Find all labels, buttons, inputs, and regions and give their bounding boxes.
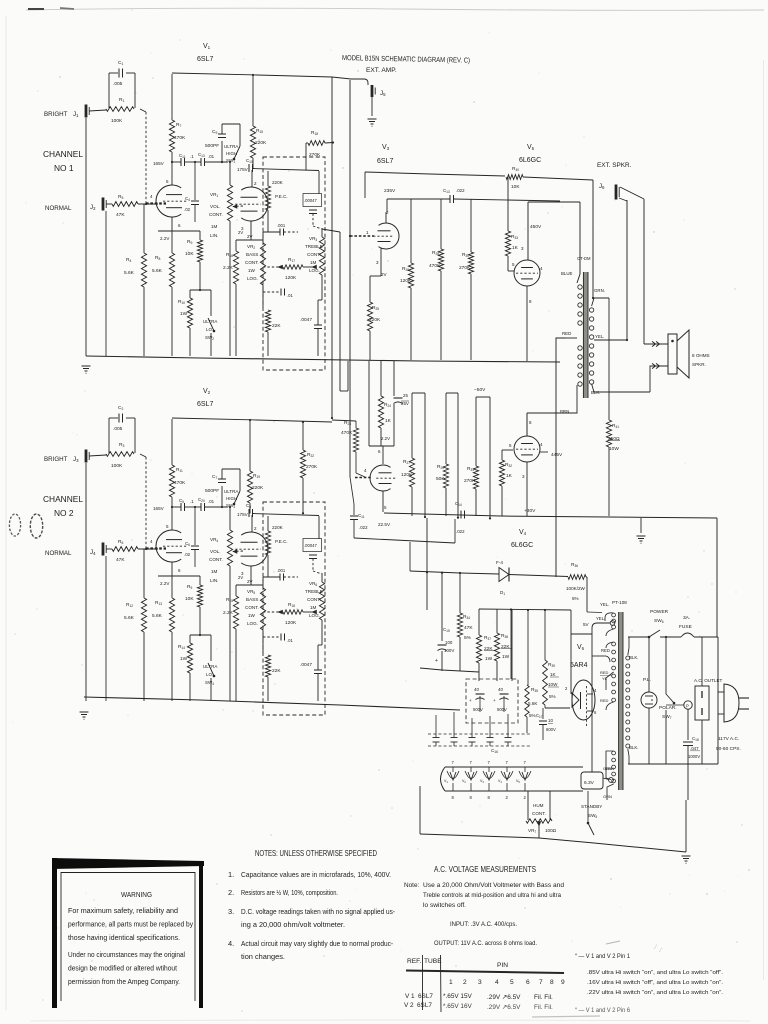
svg-text:POWER: POWER (650, 609, 669, 615)
svg-text:2V: 2V (247, 234, 253, 239)
svg-text:design be modified or altered: design be modified or altered wtihout (68, 966, 177, 973)
svg-text:40: 40 (474, 687, 479, 692)
svg-text:2V: 2V (238, 230, 243, 235)
svg-text:470K: 470K (429, 263, 441, 269)
svg-text:5: 5 (510, 979, 514, 986)
svg-text:270K: 270K (306, 464, 318, 470)
svg-text:220K: 220K (252, 485, 264, 491)
svg-text:ing a 20,000 ohm/volt voltmete: ing a 20,000 ohm/volt voltmeter. (241, 920, 345, 929)
svg-text:2: 2 (463, 979, 467, 986)
svg-text:NO 1: NO 1 (54, 163, 74, 173)
svg-text:5.6K: 5.6K (152, 613, 163, 619)
svg-text:120K: 120K (285, 275, 297, 281)
svg-text:CONT.: CONT. (209, 557, 223, 562)
svg-text:1W: 1W (248, 613, 256, 618)
svg-text:1K: 1K (550, 672, 557, 677)
svg-text:NOTES: UNLESS OTHERWISE SPECIF: NOTES: UNLESS OTHERWISE SPECIFIED (255, 849, 377, 858)
svg-text:CONT.: CONT. (245, 605, 259, 610)
svg-text:2.: 2. (228, 888, 234, 897)
svg-text:TREBLE: TREBLE (305, 244, 323, 249)
svg-text:1M: 1M (310, 260, 317, 265)
svg-text:ULTRA: ULTRA (224, 144, 238, 149)
svg-text:GRN.: GRN. (594, 288, 605, 293)
svg-text:.0047: .0047 (300, 317, 312, 323)
svg-text:1W: 1W (180, 656, 188, 662)
svg-text:LOG.: LOG. (247, 276, 258, 281)
svg-text:22.5V: 22.5V (378, 522, 391, 527)
svg-text:4: 4 (495, 979, 499, 986)
svg-text:6SL7: 6SL7 (417, 1002, 432, 1009)
svg-text:50-60 CPS.: 50-60 CPS. (716, 746, 741, 752)
svg-text:.16V ultra Hi switch “off”, an: .16V ultra Hi switch “off”, and ultra Lo… (587, 980, 723, 986)
svg-text:BASS: BASS (246, 597, 258, 602)
svg-text:22K: 22K (484, 646, 493, 652)
svg-text:1W: 1W (485, 656, 493, 662)
svg-text:ULTRA: ULTRA (203, 664, 217, 669)
svg-text:175V: 175V (237, 167, 249, 172)
svg-text:LIN.: LIN. (210, 578, 218, 583)
svg-text:500PF: 500PF (205, 143, 219, 149)
svg-text:.01: .01 (208, 154, 215, 159)
svg-text:CONT.: CONT. (307, 597, 321, 602)
svg-text:.22V ultra Hi switch “on”, and: .22V ultra Hi switch “on”, and ultra Lo … (587, 990, 723, 996)
svg-text:P.E.C.: P.E.C. (275, 539, 288, 544)
svg-text:V5: V5 (527, 144, 535, 151)
svg-text:10K: 10K (511, 184, 520, 190)
svg-text:.0047: .0047 (300, 662, 312, 668)
svg-text:VOL.: VOL. (210, 204, 220, 209)
svg-text:EXT. SPKR.: EXT. SPKR. (597, 162, 632, 169)
svg-text:F-4: F-4 (496, 560, 503, 565)
svg-text:CONT.: CONT. (307, 252, 321, 257)
svg-text:Resistors are ½ W, 10%, compos: Resistors are ½ W, 10%, composition. (241, 888, 338, 897)
svg-text:J4: J4 (90, 549, 96, 556)
svg-text:.85V ultra Hi switch “on”, and: .85V ultra Hi switch “on”, and ultra Lo … (587, 970, 723, 976)
svg-text:BRIGHT: BRIGHT (44, 111, 68, 118)
svg-text:.01: .01 (208, 499, 215, 504)
svg-text:WARNING: WARNING (121, 890, 152, 899)
svg-text:.022: .022 (456, 188, 465, 193)
svg-text:270K: 270K (464, 478, 476, 484)
svg-text:YEL.: YEL. (600, 602, 610, 607)
svg-text:V6: V6 (577, 644, 585, 651)
svg-text:GRN: GRN (605, 766, 614, 771)
svg-text:V3: V3 (382, 144, 390, 151)
svg-text:Treble controls at mid-positio: Treble controls at mid-position and ultr… (423, 892, 561, 899)
svg-text:40: 40 (498, 687, 503, 692)
svg-text:D.C. voltage readings taken wi: D.C. voltage readings taken with no sign… (241, 907, 396, 916)
svg-text:J3: J3 (73, 456, 79, 463)
svg-text:EXT. AMP.: EXT. AMP. (366, 67, 397, 74)
svg-text:NORMAL: NORMAL (45, 205, 72, 212)
svg-text:100K: 100K (111, 118, 123, 124)
svg-text:1M: 1M (310, 605, 317, 610)
svg-text:3.: 3. (228, 907, 234, 916)
svg-text:1K: 1K (385, 418, 392, 424)
svg-text:J6: J6 (599, 184, 605, 190)
svg-text:10W: 10W (548, 682, 558, 687)
svg-text:450V: 450V (530, 224, 542, 230)
svg-text:.29V ↗6.5V: .29V ↗6.5V (487, 994, 521, 1001)
svg-text:J2: J2 (90, 204, 96, 211)
svg-text:5V: 5V (583, 622, 590, 627)
svg-text:1W: 1W (248, 268, 256, 273)
svg-text:OUTPUT: 11V A.C. across 8 ohm: OUTPUT: 11V A.C. across 8 ohms load. (434, 940, 537, 947)
svg-text:STANDBY: STANDBY (581, 804, 602, 809)
svg-text:4.: 4. (228, 939, 234, 948)
svg-text:LOG.: LOG. (247, 621, 258, 626)
svg-text:For maximum safety, reliabilit: For maximum safety, reliability and (68, 908, 178, 915)
svg-text:500PF: 500PF (205, 488, 219, 494)
svg-text:V 1: V 1 (405, 993, 415, 1000)
svg-text:2.2V: 2.2V (160, 581, 170, 586)
svg-text:J5: J5 (380, 90, 386, 97)
svg-text:.022: .022 (456, 529, 465, 534)
svg-text:2V: 2V (238, 575, 243, 580)
svg-text:performance, all parts must be: performance, all parts must be replaced … (68, 922, 193, 929)
svg-text:LO.: LO. (206, 327, 213, 332)
svg-text:5%: 5% (464, 635, 472, 641)
svg-text:P: P (686, 704, 689, 709)
svg-text:A.C. OUTLET: A.C. OUTLET (694, 678, 723, 683)
svg-text:1M: 1M (211, 224, 218, 229)
svg-text:2.2K: 2.2K (223, 610, 234, 616)
svg-text:5AR4: 5AR4 (570, 662, 588, 669)
svg-text:6L6GC: 6L6GC (519, 157, 541, 164)
svg-text:6.3V: 6.3V (584, 780, 595, 786)
svg-text:165V: 165V (153, 161, 165, 166)
svg-text:.29V ↗6.5V: .29V ↗6.5V (487, 1004, 521, 1011)
svg-text:2.2V: 2.2V (160, 236, 170, 241)
svg-text:.047: .047 (690, 746, 699, 751)
svg-text:CONT.: CONT. (532, 811, 546, 816)
svg-text:1W: 1W (502, 654, 510, 660)
svg-text:220K: 220K (272, 525, 284, 530)
svg-text:FUSE: FUSE (679, 624, 692, 630)
svg-text:8: 8 (550, 979, 554, 986)
svg-text:1K: 1K (506, 473, 513, 479)
svg-text:BLUE: BLUE (561, 271, 573, 276)
svg-text:+: + (493, 698, 496, 703)
svg-text:OT-DM: OT-DM (577, 256, 591, 261)
svg-text:5.6K: 5.6K (152, 268, 163, 274)
svg-text:POLAR.: POLAR. (659, 705, 677, 711)
svg-text:22K: 22K (272, 323, 281, 329)
svg-text:.005: .005 (113, 81, 123, 87)
svg-text:BLK.: BLK. (629, 745, 639, 750)
svg-text:10K: 10K (185, 251, 194, 257)
svg-text:J1: J1 (73, 111, 79, 118)
svg-text:LOG.: LOG. (309, 613, 320, 618)
svg-text:100K: 100K (111, 463, 123, 469)
svg-text:RED: RED (562, 331, 571, 336)
svg-text:CONT.: CONT. (245, 260, 259, 265)
svg-text:250Ω: 250Ω (608, 436, 620, 442)
svg-text:117V A.C.: 117V A.C. (718, 736, 739, 742)
svg-text:470K: 470K (341, 430, 353, 436)
svg-text:25V: 25V (401, 401, 409, 406)
svg-text:6SL7: 6SL7 (418, 993, 433, 1000)
svg-text:VOL.: VOL. (210, 549, 220, 554)
svg-text:9: 9 (561, 979, 565, 986)
svg-text:1: 1 (449, 979, 453, 986)
svg-text:V4: V4 (519, 529, 527, 536)
svg-text:PT-108: PT-108 (612, 600, 627, 605)
svg-text:3: 3 (478, 979, 482, 986)
svg-text:RED: RED (600, 698, 609, 703)
svg-text:ULTRA: ULTRA (203, 319, 217, 324)
svg-text:100K/2W: 100K/2W (566, 586, 586, 591)
svg-text:5%: 5% (572, 596, 579, 601)
svg-text:3A.: 3A. (683, 615, 690, 621)
svg-text:Under no circumstances may the: Under no circumstances may the original (68, 952, 185, 959)
svg-text:PIN: PIN (497, 962, 508, 969)
svg-text:ULTRA: ULTRA (224, 489, 238, 494)
svg-text:220K: 220K (369, 317, 381, 323)
svg-text:INPUT: .3V A.C. 400/cps.: INPUT: .3V A.C. 400/cps. (450, 921, 517, 928)
svg-text:5%: 5% (529, 713, 536, 718)
svg-text:V2: V2 (203, 388, 211, 395)
svg-text:5.6K: 5.6K (528, 701, 538, 706)
svg-text:445V: 445V (551, 452, 563, 458)
svg-text:120K: 120K (401, 472, 413, 478)
svg-text:Note:: Note: (404, 882, 419, 889)
svg-text:.001: .001 (277, 223, 286, 228)
svg-text:220K: 220K (272, 180, 284, 185)
svg-text:600V: 600V (546, 727, 556, 732)
svg-text:LIN.: LIN. (210, 233, 218, 238)
svg-text:Capacitance values are in micr: Capacitance values are in microfarads, 1… (241, 870, 391, 879)
svg-text:6: 6 (526, 979, 530, 986)
svg-text:−50V: −50V (474, 387, 486, 393)
svg-text:.01: .01 (287, 638, 293, 643)
svg-text:8 OHMS: 8 OHMS (692, 353, 710, 358)
svg-text:2V: 2V (381, 272, 387, 277)
svg-text:RED: RED (600, 670, 609, 675)
svg-text:*.65V 16V: *.65V 16V (443, 1003, 473, 1010)
svg-text:270K: 270K (459, 265, 471, 271)
svg-text:235V: 235V (384, 188, 396, 194)
svg-text:120K: 120K (400, 278, 412, 284)
svg-text:50K: 50K (436, 476, 445, 482)
svg-text:2V: 2V (247, 579, 253, 584)
svg-text:NORMAL: NORMAL (45, 550, 72, 557)
svg-text:.001: .001 (277, 568, 286, 573)
svg-text:TREBLE: TREBLE (305, 589, 323, 594)
svg-text:Use a 20,000 Ohm/Volt Voltmete: Use a 20,000 Ohm/Volt Voltmeter with Bas… (423, 882, 564, 889)
svg-text:YL: YL (602, 676, 608, 681)
svg-text:TUBE: TUBE (424, 958, 442, 965)
svg-text:GRN: GRN (603, 794, 612, 799)
svg-text:10K: 10K (185, 596, 194, 602)
svg-text:BLK.: BLK. (591, 390, 601, 395)
svg-text:Fil. Fil.: Fil. Fil. (534, 1004, 553, 1011)
svg-text:BLK.: BLK. (629, 655, 639, 660)
svg-text:P.E.C.: P.E.C. (275, 194, 288, 199)
svg-text:100V: 100V (444, 648, 454, 653)
svg-text:“ — V 1 and V 2 Pin 6: “ — V 1 and V 2 Pin 6 (575, 1007, 630, 1014)
svg-text:1000V: 1000V (688, 754, 700, 759)
svg-text:22K: 22K (272, 668, 281, 674)
svg-text:175V: 175V (237, 512, 249, 517)
svg-text:5%: 5% (549, 694, 556, 699)
svg-text:LO.: LO. (206, 672, 213, 677)
svg-text:2.2V: 2.2V (381, 436, 390, 441)
svg-text:YEL.: YEL. (595, 334, 605, 339)
svg-text:10W: 10W (609, 446, 619, 452)
svg-text:BASS: BASS (246, 252, 258, 257)
svg-text:“ — V 1 and V 2 Pin 1: “ — V 1 and V 2 Pin 1 (575, 953, 630, 960)
svg-text:V 2: V 2 (404, 1002, 414, 1009)
svg-text:6SL7: 6SL7 (197, 401, 213, 408)
svg-text:47K: 47K (116, 557, 125, 563)
svg-text:.1: .1 (190, 154, 194, 159)
svg-text:RED: RED (601, 648, 610, 653)
svg-text:NO 2: NO 2 (54, 508, 74, 518)
svg-text:CHANNEL: CHANNEL (43, 149, 83, 159)
svg-text:P.L.: P.L. (643, 677, 651, 683)
svg-text:6SL7: 6SL7 (377, 158, 393, 165)
svg-text:YEL.: YEL. (596, 616, 605, 621)
svg-text:5.6K: 5.6K (124, 615, 135, 621)
svg-text:those having identical specifi: those having identical specifications. (68, 935, 180, 942)
svg-text:25: 25 (403, 393, 408, 398)
svg-text:.02: .02 (184, 552, 191, 557)
svg-text:REF.: REF. (407, 958, 421, 965)
svg-text:*.65V 15V: *.65V 15V (443, 993, 473, 1000)
svg-text:HUM: HUM (533, 803, 544, 808)
svg-text:120K: 120K (285, 620, 297, 626)
svg-text:165V: 165V (153, 506, 165, 511)
svg-text:BRIGHT: BRIGHT (44, 456, 68, 463)
svg-text:22K: 22K (501, 644, 510, 650)
svg-text:lo switches off.: lo switches off. (423, 902, 466, 909)
svg-text:6L6GC: 6L6GC (511, 542, 533, 549)
svg-text:.00047: .00047 (304, 543, 317, 548)
svg-text:1W: 1W (180, 311, 188, 317)
svg-text:.005: .005 (113, 426, 123, 432)
svg-text:permission from the Ampeg Comp: permission from the Ampeg Company. (68, 979, 180, 986)
svg-text:.00047: .00047 (304, 198, 317, 203)
svg-text:LOG.: LOG. (309, 268, 320, 273)
svg-text:1K: 1K (512, 245, 519, 251)
svg-text:tion changes.: tion changes. (241, 952, 285, 961)
svg-text:500V: 500V (473, 707, 483, 712)
svg-text:+30V: +30V (524, 508, 536, 514)
svg-text:1.: 1. (228, 870, 234, 879)
svg-text:CONT.: CONT. (209, 212, 223, 217)
svg-text:Actual circuit may vary slight: Actual circuit may vary slightly due to … (241, 939, 394, 948)
svg-text:220K: 220K (255, 140, 267, 146)
svg-text:7: 7 (539, 979, 543, 986)
svg-text:100Ω: 100Ω (545, 828, 557, 833)
svg-text:.01: .01 (287, 293, 293, 298)
svg-text:+: + (435, 658, 438, 664)
svg-text:500V: 500V (497, 707, 507, 712)
svg-text:5.6K: 5.6K (124, 270, 135, 276)
svg-text:SPKR.: SPKR. (692, 362, 706, 367)
svg-text:HIGH: HIGH (226, 151, 237, 156)
svg-text:A.C. VOLTAGE MEASUREMENTS: A.C. VOLTAGE MEASUREMENTS (434, 865, 536, 874)
svg-text:.022: .022 (359, 525, 368, 530)
svg-text:1M: 1M (211, 569, 218, 574)
svg-text:470K: 470K (174, 135, 186, 141)
svg-text:10: 10 (548, 718, 553, 723)
svg-text:.02: .02 (184, 207, 191, 212)
svg-text:47K: 47K (464, 625, 473, 631)
svg-text:2.2K: 2.2K (223, 265, 234, 271)
svg-text:HIGH: HIGH (226, 496, 237, 501)
svg-text:Fil. Fil.: Fil. Fil. (534, 994, 553, 1001)
svg-text:CHANNEL: CHANNEL (43, 494, 83, 504)
svg-text:470K: 470K (174, 480, 186, 486)
svg-text:6SL7: 6SL7 (197, 56, 213, 63)
svg-text:+: + (469, 698, 472, 703)
svg-text:.1: .1 (190, 499, 194, 504)
svg-text:47K: 47K (116, 212, 125, 218)
svg-text:V1: V1 (203, 43, 211, 50)
svg-text:100: 100 (445, 640, 453, 645)
